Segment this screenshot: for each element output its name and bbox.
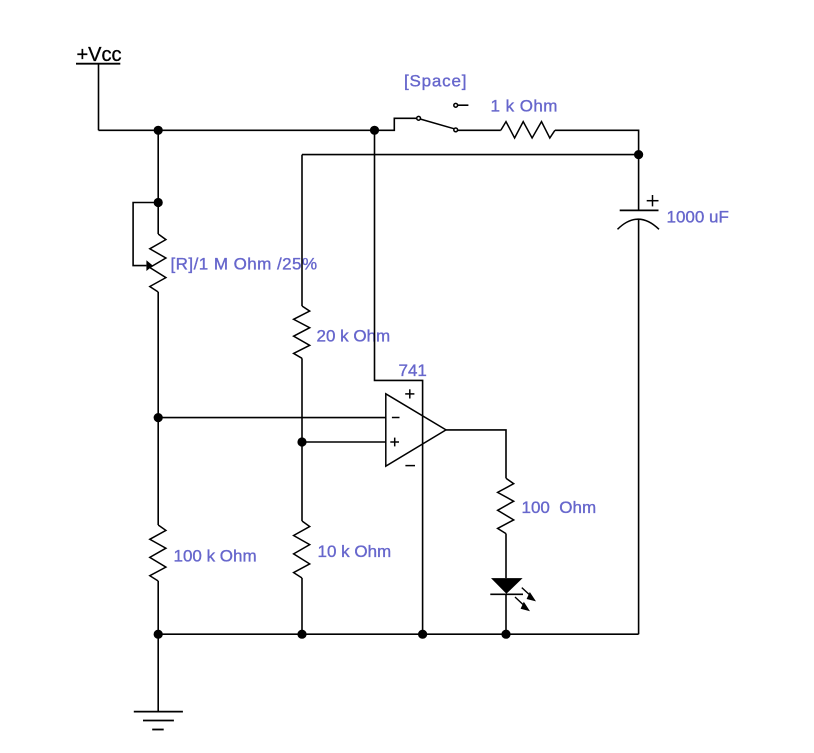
LED D1 cathode bar xyxy=(490,593,523,595)
wire 20k branch top xyxy=(301,155,303,306)
wire non-inverting input xyxy=(302,441,386,443)
node bottom rail 10k xyxy=(297,630,306,639)
wire op-amp output xyxy=(446,430,506,478)
svg-text:+Vcc: +Vcc xyxy=(77,44,122,66)
potentiometer wiper loop wire xyxy=(133,203,158,266)
wire switch to R1 xyxy=(458,129,501,131)
wire cap bottom lead / right rail xyxy=(638,219,640,634)
op-amp U1 non-inverting input mark xyxy=(390,438,399,447)
svg-text:10 k Ohm: 10 k Ohm xyxy=(318,542,392,561)
resistor R3 10 k Ohm xyxy=(294,521,310,578)
wire R1 to cap corner xyxy=(555,130,639,154)
potentiometer wiper arrow xyxy=(146,260,153,271)
svg-text:100 k Ohm: 100 k Ohm xyxy=(174,547,257,566)
wire feedback rail y154 xyxy=(302,154,639,156)
resistor R2 20 k Ohm xyxy=(294,306,310,358)
wire ground stub xyxy=(157,634,159,711)
op-amp U1 741 body xyxy=(386,394,446,466)
switch S1 [Space] pole xyxy=(417,116,421,120)
svg-text:[Space]: [Space] xyxy=(404,72,467,91)
wire +Vcc stub xyxy=(98,64,100,131)
wire bottom rail xyxy=(158,633,638,635)
wire 10k bottom xyxy=(301,578,303,634)
node capacitor top junction xyxy=(634,150,643,159)
node non-inverting junction xyxy=(297,437,306,446)
resistor R4 100 k Ohm xyxy=(150,525,166,581)
capacitor C1 1000 uF xyxy=(618,210,660,229)
switch S1 bottom throw contact xyxy=(454,128,458,132)
svg-text:100 Ohm: 100 Ohm xyxy=(522,498,597,517)
resistor R1 1 k Ohm xyxy=(501,122,555,138)
wire 10k branch xyxy=(301,442,303,521)
svg-text:[R]/1 M Ohm /25%: [R]/1 M Ohm /25% xyxy=(171,255,318,274)
wire R5 to LED xyxy=(505,534,507,579)
LED D1 light arrows xyxy=(515,588,536,612)
resistor R5 100 Ohm xyxy=(498,478,514,533)
switch S1 top throw contact xyxy=(454,103,458,107)
wire cap top lead xyxy=(638,155,640,211)
node inverting input junction xyxy=(154,413,163,422)
op-amp U1 inverting input mark xyxy=(392,417,400,419)
wire left rail middle xyxy=(157,292,159,525)
wire top rail xyxy=(99,118,417,130)
op-amp U1 V- mark xyxy=(405,465,415,467)
op-amp U1 V+ mark xyxy=(405,389,414,398)
power +Vcc xyxy=(76,44,122,66)
node potentiometer top junction xyxy=(154,198,163,207)
ground symbol xyxy=(134,712,183,730)
potentiometer R 1M body xyxy=(150,234,166,292)
node switch/supply junction xyxy=(370,126,379,135)
svg-text:20 k Ohm: 20 k Ohm xyxy=(317,327,391,346)
node bottom rail LED xyxy=(501,630,510,639)
node top-left junction xyxy=(154,126,163,135)
svg-text:1 k Ohm: 1 k Ohm xyxy=(491,97,558,116)
wire inverting input xyxy=(158,417,386,419)
LED D1 body xyxy=(491,578,523,594)
svg-text:741: 741 xyxy=(399,361,427,380)
wire left rail lower xyxy=(157,581,159,634)
wire LED to bottom rail xyxy=(505,595,507,634)
capacitor C1 polarity plus xyxy=(647,195,659,206)
node bottom rail left xyxy=(154,630,163,639)
wire left rail upper xyxy=(157,130,159,234)
wire op-amp supply branch xyxy=(375,130,423,634)
node bottom rail supply xyxy=(418,630,427,639)
switch S1 blade xyxy=(421,119,454,129)
wire 20k to junction xyxy=(301,358,303,442)
wire top contact stub xyxy=(458,104,469,106)
svg-text:1000 uF: 1000 uF xyxy=(667,208,729,227)
